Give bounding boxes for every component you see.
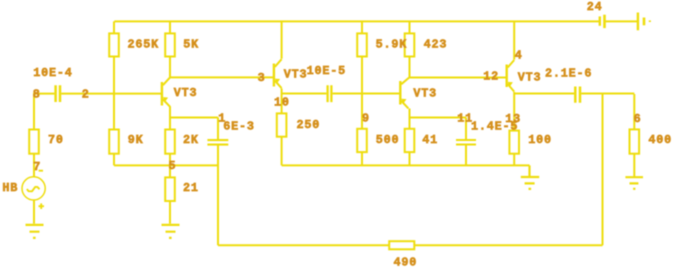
svg-text:8: 8 [33, 88, 41, 102]
svg-text:VT3: VT3 [284, 68, 308, 82]
svg-text:2K: 2K [183, 133, 199, 147]
svg-text:2: 2 [82, 88, 90, 102]
svg-text:HB: HB [2, 181, 18, 195]
svg-text:490: 490 [394, 256, 418, 269]
svg-text:10E-4: 10E-4 [33, 66, 72, 80]
svg-text:5K: 5K [183, 37, 199, 51]
svg-text:265K: 265K [128, 37, 160, 51]
svg-text:VT3: VT3 [413, 86, 437, 100]
svg-text:7: 7 [33, 160, 41, 174]
svg-text:41: 41 [422, 133, 438, 147]
svg-text:9: 9 [362, 111, 370, 125]
svg-text:70: 70 [48, 133, 64, 147]
svg-text:400: 400 [648, 133, 672, 147]
svg-text:9K: 9K [128, 133, 144, 147]
svg-text:21: 21 [183, 181, 199, 195]
svg-text:6: 6 [634, 112, 642, 126]
svg-text:VT3: VT3 [518, 70, 542, 84]
svg-text:4: 4 [515, 48, 523, 62]
svg-text:1.4E-5: 1.4E-5 [471, 120, 518, 134]
svg-text:10E-5: 10E-5 [307, 64, 346, 78]
svg-text:24: 24 [587, 0, 603, 14]
svg-text:250: 250 [297, 118, 321, 132]
svg-text:500: 500 [376, 133, 400, 147]
svg-text:3: 3 [258, 71, 266, 85]
svg-text:5: 5 [169, 159, 177, 173]
svg-text:10: 10 [274, 95, 290, 109]
svg-text:423: 423 [424, 37, 448, 51]
svg-text:5.9K: 5.9K [376, 37, 408, 51]
svg-text:12: 12 [483, 70, 499, 84]
svg-text:100: 100 [528, 133, 552, 147]
svg-text:2.1E-6: 2.1E-6 [545, 67, 592, 81]
svg-text:6E-3: 6E-3 [223, 120, 255, 134]
svg-text:VT3: VT3 [174, 86, 198, 100]
